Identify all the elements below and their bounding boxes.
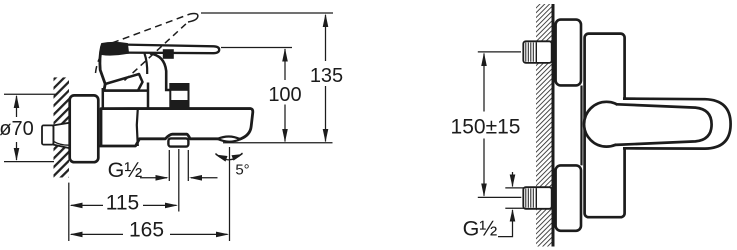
5 degree arc (216, 153, 243, 160)
lever handle (solid, rest position) (124, 45, 219, 54)
dim 150 extension lines (478, 52, 522, 198)
lever handle raised position (dashed) (96, 14, 198, 81)
G1/2 right short lines (505, 188, 524, 208)
main body with spout (100, 109, 253, 147)
dim G1/2 arrows lines (140, 177, 218, 179)
svg-text:5°: 5° (235, 162, 249, 179)
G1/2 arrows (156, 175, 169, 181)
cartridge collar trapezoid (104, 74, 143, 91)
body neck between escutcheons (580, 86, 582, 166)
arrowheads right view (481, 53, 515, 222)
dimension texts right view (451, 116, 521, 241)
lever knob (hatched dark) (101, 43, 128, 55)
svg-text:165: 165 (129, 219, 164, 242)
cartridge block (103, 83, 148, 109)
svg-text:G½: G½ (108, 158, 143, 182)
svg-text:115: 115 (106, 192, 139, 215)
dim 115 line (71, 204, 177, 206)
body section joint line (137, 109, 138, 146)
150 arrows (481, 53, 487, 67)
dim 150 line (483, 54, 485, 196)
diverter knob on body (170, 84, 190, 107)
dim 165 line (71, 233, 228, 235)
dim 135 extension lines (201, 13, 333, 143)
shower outlet nub G1/2 below body (168, 138, 188, 146)
svg-text:ø70: ø70 (0, 118, 34, 140)
G1/2 right arrows (510, 175, 516, 188)
bottom escutcheon plate (556, 165, 581, 230)
lever attachment nub (163, 49, 174, 59)
dim Ø70 line (16, 96, 18, 160)
165 arrows (70, 232, 83, 238)
dim 100 line (284, 49, 286, 142)
body left side below knob (100, 47, 105, 91)
arrowheads left view (14, 14, 329, 238)
spout outlet lens (aerator) (218, 136, 241, 141)
nub extension lines (169, 149, 188, 212)
wall face extension line (68, 183, 70, 241)
flange (escutcheon) (70, 95, 99, 162)
dim 100 extension line (221, 47, 292, 49)
svg-text:150±15: 150±15 (451, 116, 521, 139)
spout tip extension line (229, 147, 231, 241)
svg-text:135: 135 (310, 65, 343, 87)
dim Ø70 extension lines (4, 94, 57, 161)
wall hatch band (54, 77, 70, 177)
svg-text:100: 100 (268, 84, 301, 106)
Ø70 arrows (14, 95, 20, 108)
handle knob circle (584, 102, 629, 147)
bottom inlet nipple G1/2 (523, 187, 551, 209)
neck curve from lever to body (150, 54, 171, 91)
top escutcheon plate (556, 20, 581, 86)
100 arrows (282, 48, 288, 61)
top inlet nipple G1/2 (523, 41, 551, 63)
body front view (585, 34, 625, 218)
135 arrows (323, 14, 329, 27)
dimension texts left view (0, 65, 343, 242)
handle lever bar front view (616, 104, 712, 145)
G1/2 right arrow shafts (498, 172, 513, 237)
5 degree arc arrows (215, 155, 228, 162)
spout front view (623, 99, 731, 149)
115 arrows (70, 203, 83, 209)
svg-text:G½: G½ (463, 217, 498, 241)
wall line right view (552, 4, 555, 247)
wall hatch band right view (536, 4, 552, 247)
G1/2 inlet nipple behind wall (42, 123, 71, 149)
dim 135 line (325, 15, 327, 142)
